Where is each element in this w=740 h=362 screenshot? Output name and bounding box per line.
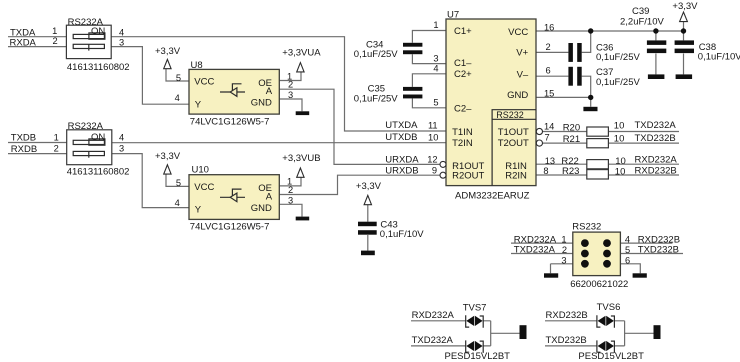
svg-text:URXDB: URXDB [385,166,418,177]
svg-text:V–: V– [517,69,529,80]
svg-text:0,1uF/10V: 0,1uF/10V [380,229,424,240]
svg-text:4: 4 [433,64,438,74]
svg-text:C1+: C1+ [454,26,472,37]
svg-text:6: 6 [625,256,630,266]
svg-text:416131160802: 416131160802 [67,167,130,178]
svg-text:Y: Y [195,99,202,110]
svg-text:74LVC1G126W5-7: 74LVC1G126W5-7 [190,222,270,233]
svg-text:TXD232B: TXD232B [635,133,676,144]
svg-text:R2OUT: R2OUT [452,171,484,182]
svg-text:TXD232A: TXD232A [412,335,454,346]
svg-text:1: 1 [54,132,59,142]
svg-text:16: 16 [544,22,554,32]
svg-text:T1IN: T1IN [452,127,473,138]
svg-text:TXD232B: TXD232B [546,335,587,346]
svg-text:1: 1 [561,235,566,245]
svg-text:VCC: VCC [508,27,528,38]
svg-text:4: 4 [175,93,180,103]
svg-text:+3,3V: +3,3V [672,1,698,12]
svg-text:RXD232A: RXD232A [412,310,455,321]
svg-text:5: 5 [433,98,438,108]
svg-text:10: 10 [614,121,625,132]
svg-text:A: A [266,86,273,97]
svg-text:+3,3V: +3,3V [356,181,382,192]
svg-text:TVS6: TVS6 [597,302,621,313]
svg-text:0,1uF/10V: 0,1uF/10V [698,52,740,63]
svg-text:C1–: C1– [454,58,472,69]
svg-text:3: 3 [288,196,293,206]
svg-text:URXDA: URXDA [385,155,419,166]
svg-text:TXD232A: TXD232A [635,120,677,131]
svg-text:T2IN: T2IN [452,138,473,149]
svg-text:2: 2 [288,80,293,90]
svg-text:2: 2 [53,36,58,46]
svg-text:RS232: RS232 [572,222,601,233]
svg-text:14: 14 [544,121,554,131]
svg-text:15: 15 [544,89,554,99]
svg-text:U8: U8 [191,60,203,71]
svg-text:Y: Y [195,205,202,216]
svg-text:RXD232B: RXD232B [546,310,588,321]
svg-text:+3,3VUB: +3,3VUB [282,153,320,164]
svg-text:3: 3 [119,37,124,47]
svg-text:R2IN: R2IN [505,171,527,182]
svg-text:A: A [266,191,273,202]
svg-text:10: 10 [428,132,438,142]
svg-text:+3,3VUA: +3,3VUA [282,48,321,59]
svg-text:2: 2 [562,245,567,255]
svg-text:U7: U7 [447,10,459,21]
svg-text:ADM3232EARUZ: ADM3232EARUZ [455,190,530,201]
svg-text:RXDA: RXDA [10,38,37,49]
svg-text:1: 1 [433,20,438,30]
svg-text:4: 4 [175,198,180,208]
svg-text:RXDB: RXDB [11,144,37,155]
svg-text:U10: U10 [192,165,209,176]
svg-text:0,1uF/25V: 0,1uF/25V [596,77,640,88]
svg-text:5: 5 [176,178,181,188]
svg-text:12: 12 [427,155,437,165]
svg-text:UTXDB: UTXDB [385,132,417,143]
svg-text:VCC: VCC [194,77,214,88]
svg-text:RS232A: RS232A [68,121,104,132]
svg-text:13: 13 [545,156,555,166]
svg-text:TXD232B: TXD232B [638,245,679,256]
svg-text:4: 4 [119,28,124,38]
svg-text:C2+: C2+ [454,69,472,80]
svg-text:9: 9 [432,166,437,176]
svg-text:10: 10 [615,166,626,177]
svg-text:0,1uF/25V: 0,1uF/25V [596,52,640,63]
svg-text:+3,3V: +3,3V [155,46,181,57]
svg-text:PESD15VL2BT: PESD15VL2BT [578,351,644,362]
svg-text:7: 7 [545,133,550,143]
svg-text:GND: GND [507,90,528,101]
svg-text:TVS7: TVS7 [463,303,487,314]
svg-text:5: 5 [176,73,181,83]
svg-text:416131160802: 416131160802 [67,62,130,73]
svg-text:66200621022: 66200621022 [570,279,628,290]
svg-text:T2OUT: T2OUT [498,138,529,149]
svg-text:3: 3 [561,256,566,266]
svg-text:10: 10 [615,156,626,167]
svg-text:6: 6 [546,65,551,75]
svg-text:C2–: C2– [454,104,472,115]
svg-text:ON: ON [91,26,105,37]
svg-text:TXDB: TXDB [11,132,36,143]
svg-text:GND: GND [251,98,272,109]
svg-text:T1OUT: T1OUT [498,127,529,138]
svg-text:2: 2 [546,42,551,52]
svg-text:R20: R20 [563,122,580,133]
svg-text:2: 2 [54,144,59,154]
svg-text:5: 5 [625,245,630,255]
svg-text:PESD15VL2BT: PESD15VL2BT [445,351,511,362]
svg-text:UTXDA: UTXDA [385,120,418,131]
svg-text:R23: R23 [562,166,579,177]
svg-text:GND: GND [251,203,272,214]
svg-text:4: 4 [625,235,630,245]
svg-text:VCC: VCC [194,182,214,193]
svg-text:RXD232A: RXD232A [635,155,678,166]
svg-text:ON: ON [91,132,105,143]
svg-text:TXD232A: TXD232A [514,245,556,256]
svg-text:3: 3 [119,144,124,154]
svg-text:11: 11 [428,121,438,131]
svg-text:0,1uF/25V: 0,1uF/25V [354,93,398,104]
svg-text:RS232: RS232 [496,110,524,120]
svg-text:74LVC1G126W5-7: 74LVC1G126W5-7 [190,116,270,127]
svg-text:3: 3 [433,54,438,64]
svg-text:0,1uF/25V: 0,1uF/25V [354,49,398,60]
svg-text:2,2uF/10V: 2,2uF/10V [620,17,664,28]
svg-text:RXD232B: RXD232B [635,166,677,177]
svg-text:2: 2 [288,185,293,195]
svg-text:3: 3 [288,90,293,100]
svg-text:1: 1 [52,26,57,36]
svg-text:8: 8 [543,166,548,176]
svg-text:+3,3V: +3,3V [155,151,181,162]
svg-text:C39: C39 [632,6,649,17]
svg-text:R21: R21 [563,134,580,145]
svg-text:10: 10 [614,134,625,145]
svg-text:V+: V+ [516,48,528,59]
svg-text:4: 4 [119,132,124,142]
